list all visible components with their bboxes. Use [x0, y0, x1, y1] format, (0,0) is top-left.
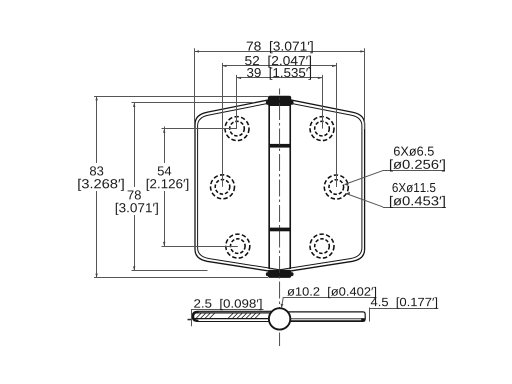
dimension 83 left — [94, 97, 268, 278]
label 6xD11.5 — [346, 194, 446, 208]
label D10.2 — [282, 297, 377, 308]
knuckle bottom — [266, 270, 294, 278]
hole BR — [310, 234, 334, 258]
dimension 2.5 — [192, 309, 264, 326]
text 6XD11.5 — [392, 183, 435, 192]
text 83 — [90, 166, 103, 175]
text 52 [2.047&quot;] — [245, 56, 311, 68]
centerline — [279, 89, 281, 347]
hole ML — [211, 175, 235, 199]
dimension 2.5 arrow tick — [188, 319, 192, 321]
hinge leaf outer contour — [195, 98, 365, 273]
knuckle junction band upper — [269, 144, 291, 148]
hinge leaf inner contour — [198, 101, 362, 270]
text 78 [3.071&quot;] — [247, 41, 313, 53]
barrel interior mask — [270, 106, 289, 267]
knuckle top — [266, 96, 294, 106]
text [2.126&quot;] — [147, 179, 189, 191]
text 2.5 [0.098&quot;] — [194, 299, 261, 310]
barrel wall left — [268, 105, 270, 270]
text [3.071&quot;] — [116, 203, 158, 215]
text [3.268&quot;] — [78, 179, 123, 191]
dimension 4.5 — [370, 308, 439, 322]
dimension 54 left — [162, 127, 238, 247]
dimension 78 top — [195, 48, 365, 129]
text [D0.453&quot;] — [390, 196, 445, 208]
hole MR — [324, 175, 348, 199]
text 54 — [158, 166, 172, 175]
dimension 52 top — [223, 63, 337, 187]
text 4.5 [0.177&quot;] — [371, 297, 437, 308]
hatch left cluster — [196, 313, 215, 318]
dimension 39 top — [237, 75, 323, 129]
hatch right cluster — [228, 313, 260, 318]
hole TL — [225, 117, 249, 141]
text [D0.256&quot;] — [390, 159, 445, 171]
bottom view right leaf — [288, 312, 365, 322]
arrowheads — [95, 50, 364, 308]
barrel wall right — [289, 105, 291, 270]
label 6xD6.5 — [345, 171, 446, 185]
hole TR — [310, 117, 334, 141]
knuckle junction band lower — [269, 228, 291, 232]
text 6XD6.5 — [394, 147, 434, 156]
hole BL — [226, 234, 250, 258]
bottom view left leaf — [192, 311, 272, 321]
text 39 [1.535&quot;] — [247, 68, 311, 80]
dimension 78 left — [132, 103, 254, 271]
text D10.2 [D0.402&quot;] — [287, 287, 376, 298]
text 78 — [128, 190, 141, 199]
barrel circle bottom view — [269, 308, 290, 329]
